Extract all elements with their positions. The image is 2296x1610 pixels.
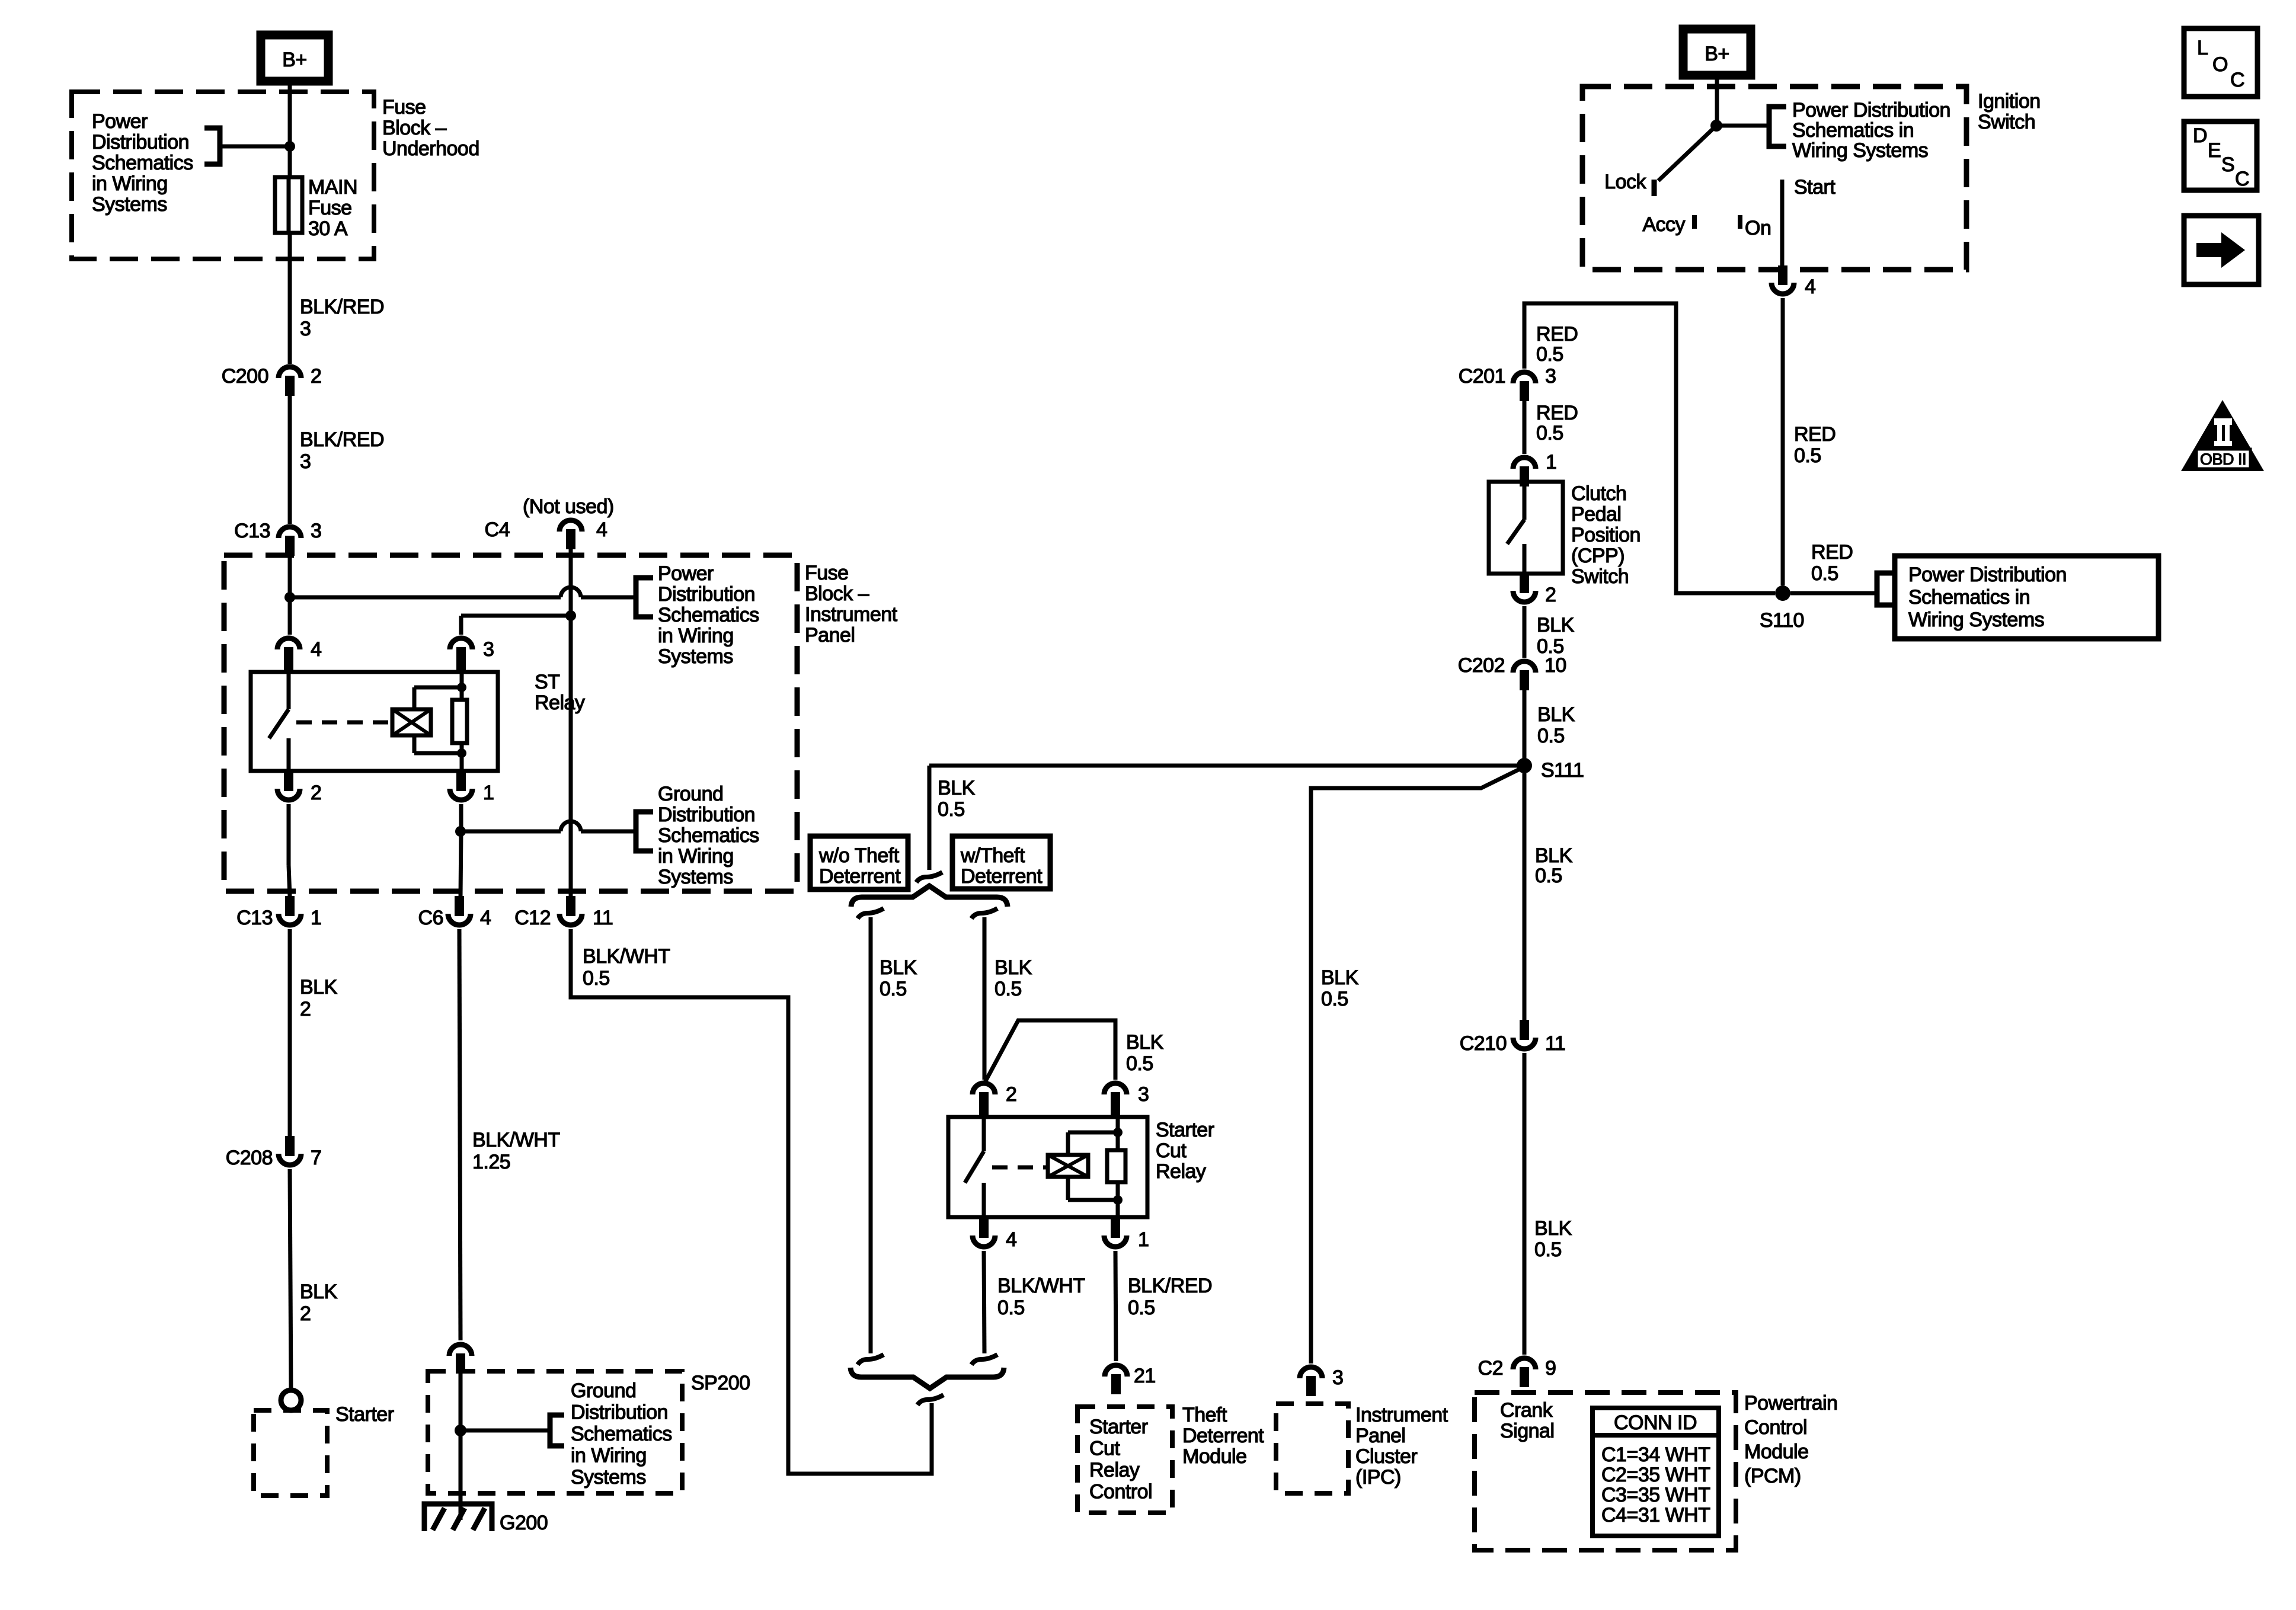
ring terminal at starter: [281, 1390, 301, 1410]
svg-text:BLK: BLK: [300, 1281, 338, 1303]
svg-text:BLK/WHT: BLK/WHT: [583, 945, 670, 968]
connector C6 pin 4: [448, 914, 471, 925]
svg-text:10: 10: [1544, 654, 1566, 677]
wire ST pin1 down: [459, 804, 463, 831]
wire ST pin2 to C13-1: [287, 804, 291, 865]
svg-text:BLK/WHT: BLK/WHT: [997, 1275, 1085, 1297]
svg-text:C201: C201: [1459, 365, 1505, 388]
svg-text:0.5: 0.5: [994, 978, 1022, 1000]
battery positive voltage symbol B+ (underhood): [261, 35, 328, 81]
ignition Accy contact tick: [1692, 215, 1697, 229]
power distribution schematics box: [1895, 556, 2159, 639]
svg-text:BLK: BLK: [994, 956, 1032, 979]
svg-text:Instrument: Instrument: [805, 603, 898, 626]
instrument panel cluster dashed outline: [1276, 1404, 1348, 1493]
wire hook w/theft branch bottom: [971, 1355, 997, 1365]
svg-text:Power Distribution: Power Distribution: [1908, 564, 2067, 586]
connector into SP200: [449, 1345, 472, 1356]
battery positive voltage symbol B+ (ignition): [1683, 29, 1751, 75]
svg-text:w/Theft: w/Theft: [960, 844, 1025, 867]
connector ignition pin 4: [1771, 283, 1794, 294]
ST relay switch contact: [287, 672, 291, 709]
svg-text:Ground: Ground: [571, 1379, 636, 1402]
node: ground distribution tap: [455, 826, 466, 837]
svg-text:3: 3: [1138, 1083, 1149, 1106]
svg-text:2: 2: [311, 365, 321, 388]
wire C13 into fuse block: [288, 556, 292, 635]
svg-text:C: C: [2235, 168, 2249, 190]
svg-text:0.5: 0.5: [1536, 422, 1563, 444]
svg-text:ST: ST: [535, 671, 559, 693]
svg-text:0.5: 0.5: [1534, 1238, 1562, 1261]
svg-text:in Wiring: in Wiring: [658, 845, 734, 868]
svg-text:1: 1: [311, 907, 321, 929]
svg-text:BLK: BLK: [938, 777, 976, 799]
svg-text:C4=31 WHT: C4=31 WHT: [1601, 1504, 1710, 1526]
clutch pedal position switch box: [1489, 482, 1563, 574]
wire S110 to power distribution bracket: [1790, 591, 1877, 596]
svg-text:Relay: Relay: [535, 692, 585, 714]
w/Theft Deterrent box: [952, 836, 1050, 889]
svg-text:Starter: Starter: [335, 1403, 394, 1426]
svg-text:C202: C202: [1458, 654, 1505, 677]
svg-text:B+: B+: [282, 49, 307, 71]
svg-text:Control: Control: [1744, 1416, 1807, 1439]
svg-text:Ground: Ground: [658, 783, 723, 805]
svg-text:Power Distribution: Power Distribution: [1792, 99, 1950, 121]
svg-text:RED: RED: [1794, 423, 1835, 446]
svg-text:1.25: 1.25: [472, 1151, 510, 1173]
svg-text:Wiring Systems: Wiring Systems: [1908, 609, 2044, 631]
wire S111 to C210 (BLK 0.5): [1523, 773, 1527, 1020]
wire fuse to C200 (BLK/RED 3): [288, 233, 292, 364]
fuse block underhood dashed outline: [72, 92, 374, 259]
svg-text:0.5: 0.5: [997, 1297, 1025, 1319]
svg-text:BLK: BLK: [880, 956, 917, 979]
svg-text:Block –: Block –: [382, 117, 447, 139]
svg-text:Cut: Cut: [1089, 1438, 1120, 1460]
connector C210 pin 11: [1513, 1038, 1536, 1049]
DESC legend box: [2184, 121, 2257, 190]
starter cut relay box: [948, 1117, 1147, 1217]
wire ST relay pin3 through resistor to pin1: [460, 672, 464, 700]
svg-text:(IPC): (IPC): [1355, 1466, 1401, 1489]
node: ignition feed: [1710, 120, 1722, 132]
svg-text:BLK: BLK: [1534, 1217, 1572, 1240]
bracket to power distribution schematics (ignition): [1769, 107, 1786, 146]
wire SC pin4 to lower brace (BLK/WHT 0.5): [984, 1251, 984, 1353]
svg-text:Accy: Accy: [1642, 213, 1685, 236]
upper option brace: [851, 886, 1008, 907]
connector SC relay pin 2: [973, 1083, 995, 1094]
svg-text:Systems: Systems: [658, 866, 733, 888]
wire hop over C4 line (lower): [561, 821, 581, 831]
wire SP200 internal: [459, 1374, 463, 1502]
svg-text:3: 3: [300, 318, 311, 340]
svg-text:BLK/RED: BLK/RED: [300, 296, 384, 318]
svg-text:Power: Power: [92, 110, 148, 133]
svg-text:Systems: Systems: [571, 1466, 646, 1489]
svg-text:21: 21: [1134, 1365, 1156, 1387]
svg-text:0.5: 0.5: [1535, 865, 1562, 887]
svg-text:Deterrent: Deterrent: [961, 865, 1043, 888]
svg-text:9: 9: [1545, 1357, 1556, 1379]
wire hook w/theft branch top: [971, 908, 997, 918]
svg-text:Powertrain: Powertrain: [1744, 1392, 1838, 1414]
connector IPC pin 3: [1300, 1367, 1322, 1378]
connector CPP pin 1: [1513, 457, 1536, 469]
wire B+ to MAIN fuse: [288, 81, 292, 177]
svg-text:0.5: 0.5: [1321, 988, 1348, 1010]
svg-text:O: O: [2212, 53, 2228, 76]
connector theft deterrent module pin 21: [1105, 1365, 1127, 1377]
svg-text:4: 4: [596, 518, 607, 541]
svg-text:Module: Module: [1182, 1445, 1247, 1468]
svg-text:Distribution: Distribution: [571, 1401, 668, 1424]
svg-text:C3=35 WHT: C3=35 WHT: [1601, 1484, 1710, 1506]
svg-text:1: 1: [1138, 1228, 1149, 1251]
node: SC coil bottom: [1113, 1195, 1123, 1205]
svg-text:C13: C13: [234, 520, 270, 542]
wire junction to ST relay pin 3: [461, 614, 571, 618]
ignition switch blade: [1658, 126, 1716, 181]
connector ST relay pin 3: [450, 638, 472, 649]
svg-text:Block –: Block –: [805, 582, 869, 605]
svg-text:Instrument: Instrument: [1355, 1404, 1448, 1426]
svg-text:Underhood: Underhood: [382, 137, 479, 160]
ignition switch dashed outline: [1582, 87, 1966, 270]
theft deterrent module dashed outline: [1077, 1407, 1172, 1513]
powertrain control module dashed outline: [1475, 1393, 1736, 1550]
svg-text:Panel: Panel: [1355, 1425, 1405, 1447]
svg-text:BLK: BLK: [1321, 966, 1359, 989]
ST relay box: [251, 672, 498, 771]
svg-text:Cut: Cut: [1156, 1140, 1187, 1162]
svg-text:3: 3: [300, 450, 311, 473]
node: tap on C13 feed: [284, 592, 295, 603]
svg-text:Schematics: Schematics: [658, 604, 759, 626]
svg-text:4: 4: [1805, 276, 1815, 298]
svg-text:3: 3: [311, 520, 321, 542]
connector C12 pin 11: [559, 914, 582, 925]
svg-text:11: 11: [1545, 1032, 1565, 1055]
svg-text:4: 4: [311, 638, 321, 661]
SC relay coil loop wires: [1066, 1132, 1070, 1155]
wire S111 to theft brace (BLK 0.5): [928, 766, 932, 870]
wire SC pin1 to theft module pin 21 (BLK/RED 0.5): [1115, 1251, 1116, 1361]
bracket to power distribution box: [1877, 573, 1895, 605]
wire C202 to S111 (BLK 0.5): [1523, 690, 1527, 759]
svg-text:Starter: Starter: [1089, 1416, 1148, 1438]
svg-text:BLK: BLK: [300, 976, 338, 998]
svg-text:Ignition: Ignition: [1978, 90, 2041, 113]
svg-text:BLK: BLK: [1126, 1031, 1164, 1054]
svg-text:3: 3: [1545, 365, 1556, 388]
wire hook above lower brace: [917, 1395, 944, 1405]
svg-text:0.5: 0.5: [1128, 1297, 1155, 1319]
connector SC relay pin 4: [973, 1235, 995, 1247]
connector C13 pin 3: [279, 527, 301, 538]
wire C210 to C2 (BLK 0.5): [1523, 1053, 1527, 1355]
svg-text:Fuse: Fuse: [382, 96, 426, 119]
lower option brace: [850, 1368, 1004, 1388]
svg-text:7: 7: [311, 1147, 321, 1169]
svg-text:1: 1: [1546, 451, 1556, 473]
splice pack SP200 dashed outline: [428, 1371, 682, 1493]
bracket to ground distribution schematics (SP200): [550, 1415, 564, 1446]
wire C12 to theft option brace: [571, 929, 932, 1474]
svg-text:D: D: [2193, 124, 2207, 147]
svg-text:C12: C12: [514, 907, 551, 929]
svg-text:Theft: Theft: [1182, 1404, 1227, 1426]
svg-text:w/o Theft: w/o Theft: [818, 844, 900, 867]
wire tap to ground distribution bracket: [461, 830, 561, 834]
svg-text:in Wiring: in Wiring: [92, 172, 168, 195]
arrow legend box: [2184, 216, 2259, 284]
wire w/theft to SC relay pin 3: [984, 1020, 1115, 1083]
connector ST relay pin 4: [277, 638, 300, 649]
svg-text:0.5: 0.5: [938, 798, 965, 821]
svg-text:BLK/RED: BLK/RED: [1128, 1275, 1212, 1297]
svg-text:Distribution: Distribution: [92, 131, 189, 153]
svg-text:CONN ID: CONN ID: [1614, 1411, 1697, 1434]
connector C200 pin 2: [279, 367, 301, 378]
ST relay actuation dashed link: [296, 721, 388, 725]
node: SC coil top: [1113, 1128, 1123, 1137]
svg-text:Start: Start: [1794, 176, 1835, 199]
node S110: [1775, 585, 1790, 601]
svg-text:Schematics in: Schematics in: [1908, 586, 2030, 609]
svg-text:Schematics: Schematics: [92, 152, 193, 174]
w/o Theft Deterrent box: [810, 836, 908, 889]
svg-text:C208: C208: [226, 1147, 273, 1169]
CPP switch contact: [1523, 482, 1527, 520]
svg-text:Fuse: Fuse: [805, 562, 849, 584]
svg-text:S110: S110: [1760, 609, 1804, 632]
wire C200 to C13 (BLK/RED 3): [288, 396, 292, 524]
ignition On contact tick: [1738, 215, 1742, 229]
svg-text:C2: C2: [1478, 1357, 1503, 1379]
svg-text:RED: RED: [1811, 541, 1853, 564]
svg-text:in Wiring: in Wiring: [658, 625, 734, 647]
wire ignition to S110 (RED 0.5): [1781, 298, 1785, 585]
OBD II triangle symbol: [2181, 400, 2264, 471]
svg-text:On: On: [1745, 217, 1771, 239]
svg-text:C6: C6: [418, 907, 443, 929]
bracket to power distribution schematics (underhood): [204, 128, 220, 164]
svg-text:Schematics: Schematics: [658, 824, 759, 847]
svg-text:Module: Module: [1744, 1441, 1809, 1463]
svg-text:Crank: Crank: [1500, 1399, 1553, 1422]
svg-text:(Not used): (Not used): [523, 495, 614, 518]
svg-text:1: 1: [483, 782, 494, 804]
wire hook from S111 feed: [916, 872, 942, 882]
svg-text:SP200: SP200: [691, 1372, 750, 1394]
svg-text:4: 4: [1006, 1228, 1016, 1251]
svg-text:(CPP): (CPP): [1571, 545, 1625, 567]
node: SP200 splice: [455, 1425, 466, 1436]
svg-text:4: 4: [480, 907, 491, 929]
SC relay coil: [1048, 1155, 1088, 1177]
wire S111 to IPC (BLK 0.5): [1311, 768, 1522, 1363]
svg-text:Signal: Signal: [1500, 1420, 1555, 1442]
connector SC relay pin 3: [1104, 1083, 1127, 1094]
svg-text:Distribution: Distribution: [658, 804, 755, 826]
svg-text:Schematics: Schematics: [571, 1423, 672, 1445]
connector CPP pin 2: [1513, 591, 1536, 602]
bracket to ground distribution schematics (IP): [636, 812, 653, 851]
svg-text:0.5: 0.5: [1126, 1052, 1153, 1075]
node S111: [1517, 758, 1532, 773]
svg-text:Cluster: Cluster: [1355, 1445, 1417, 1468]
connector C2 pin 9: [1513, 1358, 1536, 1369]
svg-text:C2=35 WHT: C2=35 WHT: [1601, 1464, 1710, 1486]
svg-text:S: S: [2221, 153, 2234, 176]
connector C201 pin 3: [1513, 372, 1536, 383]
svg-text:BLK: BLK: [1535, 844, 1573, 867]
svg-text:C200: C200: [222, 365, 268, 388]
svg-text:Deterrent: Deterrent: [1182, 1425, 1264, 1447]
wire C201 to CPP pin 1 (RED 0.5): [1523, 401, 1527, 454]
node: ST coil bottom: [457, 748, 466, 758]
connector C4 pin 4 (not used): [559, 520, 582, 532]
svg-text:OBD II: OBD II: [2200, 450, 2246, 468]
ST relay coil: [392, 709, 431, 735]
svg-text:BLK/WHT: BLK/WHT: [472, 1129, 560, 1151]
svg-text:C13: C13: [236, 907, 273, 929]
bracket to power distribution schematics (IP): [636, 578, 653, 617]
wire splice to ground distribution bracket: [461, 1429, 550, 1433]
wire C13-1 to C208 (BLK 2): [288, 929, 292, 1136]
SC relay actuation dashed link: [992, 1166, 1048, 1170]
fuse MAIN Fuse 30 A: [275, 177, 302, 233]
svg-text:2: 2: [300, 1302, 311, 1325]
wire w/o theft branch (BLK 0.5): [869, 917, 873, 1353]
wire tap to IP power distribution bracket: [290, 596, 561, 600]
CONN ID table box: [1593, 1408, 1719, 1536]
svg-text:S111: S111: [1541, 759, 1584, 782]
connector SC relay pin 1: [1104, 1235, 1127, 1247]
wire hook w/o theft branch top: [858, 908, 884, 918]
node: C4 line to ST relay pin 3: [565, 610, 576, 621]
fuse block instrument panel dashed outline: [224, 555, 797, 891]
svg-text:3: 3: [1332, 1366, 1343, 1389]
svg-text:Distribution: Distribution: [658, 583, 755, 606]
svg-text:(PCM): (PCM): [1744, 1465, 1801, 1487]
svg-text:30 A: 30 A: [308, 217, 348, 240]
wire feed node to power distribution bracket: [1716, 124, 1769, 128]
svg-text:Schematics in: Schematics in: [1792, 119, 1914, 142]
wire C208 to starter ring terminal (BLK 2): [290, 1169, 291, 1391]
svg-text:2: 2: [300, 998, 311, 1020]
ground G200 symbol: [424, 1504, 492, 1531]
svg-text:Lock: Lock: [1604, 171, 1646, 193]
svg-text:Clutch: Clutch: [1571, 482, 1626, 505]
ignition Start contact: [1780, 180, 1785, 265]
connector C208 pin 7: [279, 1154, 301, 1165]
svg-text:Fuse: Fuse: [308, 197, 352, 219]
svg-text:Position: Position: [1571, 524, 1641, 546]
wire CPP to C202 (BLK 0.5): [1523, 606, 1527, 658]
svg-text:RED: RED: [1536, 323, 1578, 345]
svg-text:C: C: [2230, 69, 2244, 91]
CONN ID header separator: [1593, 1433, 1719, 1438]
svg-text:MAIN: MAIN: [308, 176, 357, 199]
connector ST relay pin 1: [450, 789, 472, 800]
svg-text:B+: B+: [1705, 43, 1729, 65]
svg-text:L: L: [2197, 37, 2208, 59]
svg-text:BLK/RED: BLK/RED: [300, 428, 384, 451]
svg-text:Switch: Switch: [1571, 565, 1629, 588]
svg-text:Pedal: Pedal: [1571, 503, 1621, 526]
svg-text:Power: Power: [658, 562, 714, 585]
svg-text:Systems: Systems: [658, 645, 733, 668]
ST relay coil loop wires: [412, 687, 417, 709]
svg-text:in Wiring: in Wiring: [571, 1445, 647, 1467]
wire w/theft branch (BLK 0.5): [983, 917, 987, 1080]
svg-text:Starter: Starter: [1156, 1119, 1214, 1141]
wire SC pin3 through resistor to pin1: [1116, 1117, 1120, 1150]
wire C4 down to junction: [569, 549, 573, 896]
svg-text:C1=34 WHT: C1=34 WHT: [1601, 1443, 1710, 1466]
connector C13 pin 1: [279, 914, 301, 925]
svg-text:0.5: 0.5: [583, 967, 610, 990]
svg-text:C4: C4: [485, 518, 510, 541]
connector C202 pin 10: [1513, 661, 1536, 673]
ignition Lock contact: [1652, 180, 1657, 196]
svg-text:RED: RED: [1536, 402, 1578, 424]
svg-text:Relay: Relay: [1089, 1459, 1140, 1481]
wire hook w/o theft branch bottom: [858, 1355, 884, 1365]
svg-text:3: 3: [483, 638, 494, 661]
resistor in SC relay: [1107, 1150, 1125, 1182]
wire hop over C4 line (upper): [561, 587, 581, 597]
svg-text:0.5: 0.5: [1794, 444, 1821, 467]
svg-text:0.5: 0.5: [1537, 725, 1565, 747]
svg-text:G200: G200: [500, 1512, 548, 1534]
SC relay switch contact: [982, 1117, 986, 1151]
wire B+ to ignition feed node: [1715, 75, 1719, 126]
connector ST relay pin 2: [277, 789, 300, 800]
svg-text:Relay: Relay: [1156, 1160, 1206, 1183]
node: tap to power distribution (underhood): [284, 141, 295, 152]
svg-text:Panel: Panel: [805, 624, 855, 646]
svg-text:BLK: BLK: [1537, 614, 1575, 636]
svg-text:Switch: Switch: [1978, 111, 2035, 133]
starter dashed outline: [254, 1410, 327, 1496]
resistor in ST relay: [452, 700, 467, 743]
svg-text:2: 2: [311, 782, 321, 804]
svg-text:E: E: [2208, 139, 2221, 162]
svg-text:11: 11: [593, 907, 613, 929]
LOC legend box: [2184, 28, 2257, 97]
svg-text:2: 2: [1006, 1083, 1016, 1106]
svg-text:Wiring Systems: Wiring Systems: [1792, 139, 1928, 162]
svg-text:Systems: Systems: [92, 193, 167, 216]
svg-text:Control: Control: [1089, 1481, 1152, 1503]
svg-text:0.5: 0.5: [1811, 562, 1838, 585]
svg-text:BLK: BLK: [1537, 703, 1575, 726]
node: ST coil top: [457, 683, 466, 692]
wire C6-4 to SP200 (BLK/WHT 1.25): [459, 929, 461, 1340]
svg-text:0.5: 0.5: [1536, 343, 1563, 366]
svg-text:C210: C210: [1460, 1032, 1507, 1055]
wire S110 loop to C201: [1524, 303, 1775, 593]
svg-text:2: 2: [1545, 584, 1556, 606]
svg-text:Deterrent: Deterrent: [819, 865, 901, 888]
svg-text:0.5: 0.5: [880, 978, 907, 1000]
